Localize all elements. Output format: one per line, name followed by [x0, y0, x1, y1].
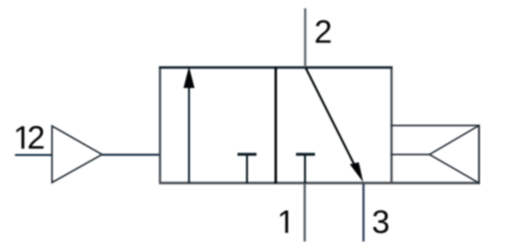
wire: pilot 12 stub [15, 154, 52, 156]
valve body left edge [159, 68, 161, 184]
air return box top and right edges [392, 126, 480, 184]
port label 2 [316, 20, 331, 43]
port 3 line [362, 183, 364, 242]
port label 3 [373, 210, 388, 233]
valve body top edge [159, 66, 393, 68]
port 1 line [304, 183, 306, 242]
port 2 line [304, 8, 306, 67]
wire: pilot to valve [102, 154, 160, 156]
flow arrow left chamber (1 to 2) [184, 67, 195, 184]
port label 1 [280, 211, 288, 233]
flow path 2 to 3 diagonal [306, 68, 364, 183]
pilot actuator triangle 12 [52, 126, 102, 183]
blocked port right chamber (T at port 1) [296, 154, 315, 183]
air return triangle [430, 126, 480, 184]
valve body and air-return shared bottom edge [159, 182, 480, 184]
blocked port left chamber (T) [238, 154, 257, 183]
chamber divider [275, 68, 278, 184]
air return pilot line [392, 154, 430, 156]
pilot port label 12 [16, 126, 43, 149]
valve body right edge [390, 68, 392, 184]
